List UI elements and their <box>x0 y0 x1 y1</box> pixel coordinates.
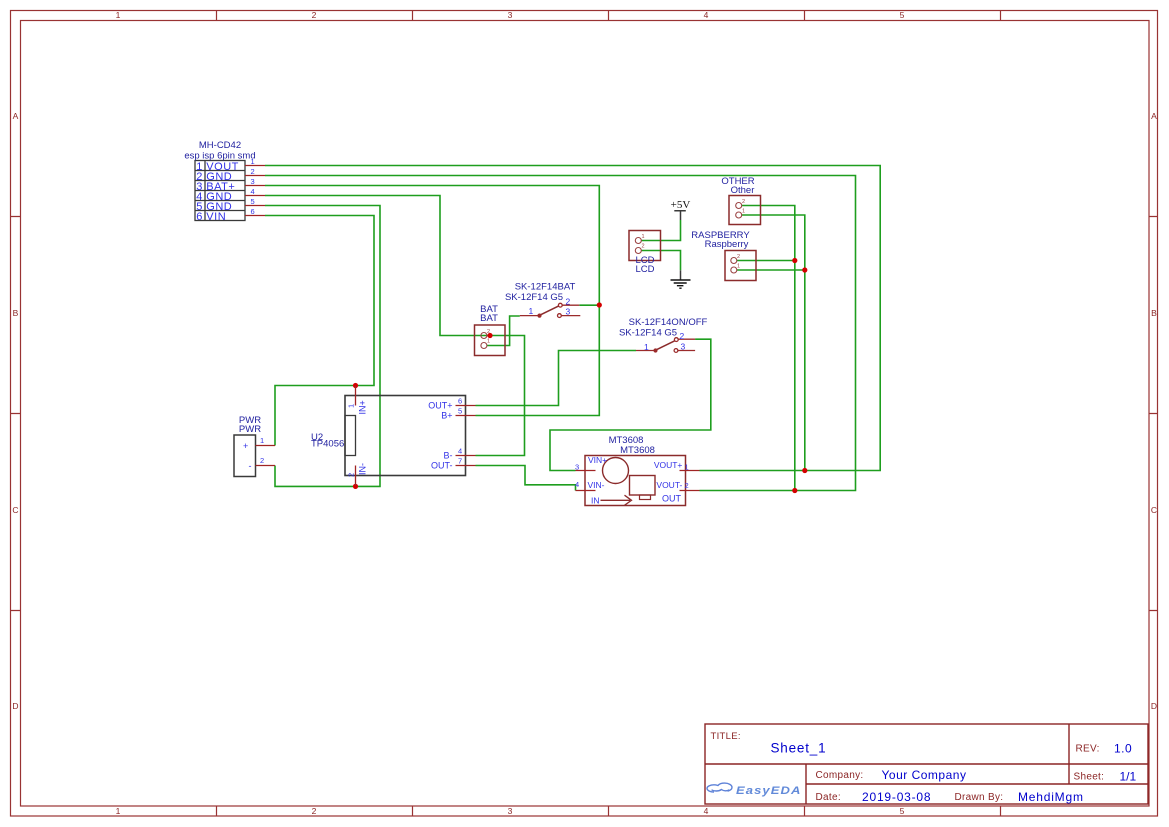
svg-text:MH-CD42: MH-CD42 <box>199 140 241 151</box>
svg-text:esp isp 6pin smd: esp isp 6pin smd <box>184 151 255 162</box>
svg-text:VIN+: VIN+ <box>588 455 607 465</box>
svg-text:B+: B+ <box>441 411 452 421</box>
svg-text:1: 1 <box>487 339 490 345</box>
svg-text:TITLE:: TITLE: <box>711 731 741 742</box>
svg-text:C: C <box>12 505 18 515</box>
svg-text:A: A <box>1151 111 1157 121</box>
svg-text:5: 5 <box>458 407 462 416</box>
svg-text:B: B <box>13 308 19 318</box>
svg-text:Other: Other <box>731 185 755 196</box>
svg-text:2: 2 <box>566 297 571 307</box>
svg-text:Sheet_1: Sheet_1 <box>771 741 827 756</box>
svg-text:EasyEDA: EasyEDA <box>736 784 801 797</box>
svg-text:1: 1 <box>685 463 689 472</box>
svg-text:2: 2 <box>347 473 356 477</box>
svg-text:7: 7 <box>458 457 462 466</box>
svg-text:1: 1 <box>644 342 649 352</box>
svg-text:OUT+: OUT+ <box>428 401 452 411</box>
svg-text:Date:: Date: <box>816 792 841 803</box>
svg-text:+5V: +5V <box>671 199 691 211</box>
svg-text:OUT-: OUT- <box>431 461 453 471</box>
svg-text:3: 3 <box>508 10 513 20</box>
svg-text:2: 2 <box>260 456 264 465</box>
svg-text:4: 4 <box>575 480 579 489</box>
svg-text:1: 1 <box>251 157 255 166</box>
svg-text:2: 2 <box>642 244 645 250</box>
svg-text:4: 4 <box>251 187 255 196</box>
svg-text:2: 2 <box>737 254 740 260</box>
svg-text:MT3608: MT3608 <box>620 445 655 456</box>
svg-text:6: 6 <box>251 207 255 216</box>
svg-text:REV:: REV: <box>1076 744 1100 755</box>
svg-text:VIN: VIN <box>206 211 226 223</box>
svg-text:SK-12F14BAT: SK-12F14BAT <box>515 282 576 293</box>
svg-text:2: 2 <box>742 199 745 205</box>
svg-text:5: 5 <box>900 10 905 20</box>
svg-text:4: 4 <box>704 10 709 20</box>
svg-text:VOUT+: VOUT+ <box>654 460 683 470</box>
svg-text:SK-12F14ON/OFF: SK-12F14ON/OFF <box>629 317 708 328</box>
svg-text:LCD: LCD <box>635 264 654 275</box>
svg-text:PWR: PWR <box>239 424 261 435</box>
svg-text:VOUT-: VOUT- <box>656 480 682 490</box>
svg-text:2: 2 <box>312 806 317 816</box>
svg-text:Sheet:: Sheet: <box>1074 772 1105 783</box>
svg-text:Drawn By:: Drawn By: <box>955 792 1004 803</box>
svg-text:1: 1 <box>737 264 740 270</box>
svg-text:Company:: Company: <box>816 770 864 781</box>
svg-text:1.0: 1.0 <box>1114 742 1132 756</box>
svg-text:IN+: IN+ <box>358 400 368 414</box>
svg-text:D: D <box>1151 701 1157 711</box>
svg-text:3: 3 <box>575 462 579 471</box>
svg-text:B-: B- <box>444 451 453 461</box>
svg-text:2: 2 <box>685 481 689 490</box>
svg-text:OUT: OUT <box>662 494 682 504</box>
svg-text:2: 2 <box>312 10 317 20</box>
svg-text:3: 3 <box>681 342 686 352</box>
svg-text:A: A <box>13 111 19 121</box>
svg-text:6: 6 <box>196 211 203 223</box>
svg-text:MehdiMgm: MehdiMgm <box>1018 790 1084 804</box>
svg-text:1: 1 <box>742 209 745 215</box>
svg-text:1/1: 1/1 <box>1120 770 1137 784</box>
svg-text:1: 1 <box>260 436 264 445</box>
svg-text:5: 5 <box>251 197 255 206</box>
svg-text:-: - <box>249 461 252 471</box>
svg-text:4: 4 <box>704 806 709 816</box>
svg-text:SK-12F14 G5: SK-12F14 G5 <box>505 292 563 303</box>
svg-text:1: 1 <box>347 404 356 408</box>
svg-text:6: 6 <box>458 397 462 406</box>
svg-text:TP4056: TP4056 <box>311 439 344 450</box>
svg-text:C: C <box>1151 505 1157 515</box>
svg-text:VIN-: VIN- <box>588 480 605 490</box>
svg-text:1: 1 <box>116 806 121 816</box>
svg-text:4: 4 <box>458 447 462 456</box>
svg-text:SK-12F14 G5: SK-12F14 G5 <box>619 328 677 339</box>
svg-text:1: 1 <box>116 10 121 20</box>
svg-text:2: 2 <box>680 331 685 341</box>
svg-text:2: 2 <box>251 167 255 176</box>
svg-text:B: B <box>1151 308 1157 318</box>
svg-text:3: 3 <box>508 806 513 816</box>
svg-text:Your Company: Your Company <box>882 768 967 782</box>
svg-text:IN: IN <box>591 496 600 506</box>
svg-text:5: 5 <box>900 806 905 816</box>
svg-text:3: 3 <box>251 177 255 186</box>
svg-text:IN-: IN- <box>358 463 368 475</box>
svg-text:2: 2 <box>487 329 490 335</box>
svg-text:D: D <box>12 701 18 711</box>
svg-text:2019-03-08: 2019-03-08 <box>862 790 931 804</box>
svg-text:1: 1 <box>642 234 645 240</box>
svg-text:3: 3 <box>566 307 571 317</box>
svg-text:BAT: BAT <box>480 313 498 324</box>
svg-text:+: + <box>243 441 248 451</box>
svg-text:1: 1 <box>529 306 534 316</box>
svg-text:Raspberry: Raspberry <box>705 239 749 250</box>
